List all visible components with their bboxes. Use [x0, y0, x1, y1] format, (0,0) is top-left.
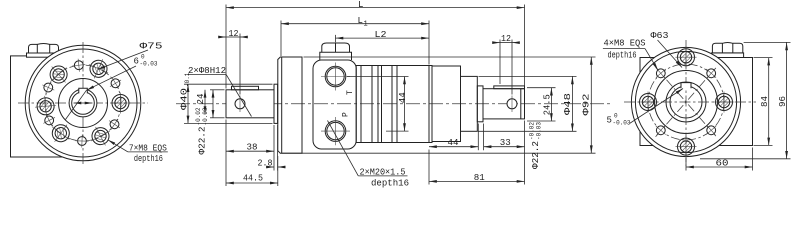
bore diameter arrows left view: [74, 102, 93, 104]
leader 4xM8 to hole NW: [645, 49, 658, 71]
port T centerlines: [321, 76, 350, 78]
bolt B4: [86, 122, 114, 150]
center bore outer circle left view: [69, 89, 97, 117]
stack plate line 1: [360, 66, 362, 143]
shaft cross hole: [235, 99, 245, 109]
svg-text:P: P: [342, 112, 351, 117]
flange chamfer line: [281, 57, 283, 153]
svg-text:depth16: depth16: [134, 154, 163, 164]
svg-text:24.5: 24.5: [543, 94, 553, 115]
ext line shaft end (L / 12 / 38 / 44.5): [225, 5, 227, 89]
right view diagonal centerline NW-SE: [656, 67, 717, 136]
end plate: [429, 66, 432, 143]
svg-text:Φ63: Φ63: [651, 31, 669, 41]
end cover: [432, 66, 461, 142]
port P outer circle: [325, 121, 346, 142]
ext lines rear 12: [499, 40, 501, 85]
dimension 24.5 vertical: [550, 88, 552, 121]
bolt B5: [46, 119, 75, 148]
svg-text:Φ48: Φ48: [563, 93, 573, 115]
center bore outer circle right view: [666, 82, 706, 122]
top plug dome: [322, 43, 350, 52]
dimension 81: [429, 180, 525, 182]
ext line flange front (44.5): [277, 156, 279, 186]
svg-text:33: 33: [500, 138, 511, 148]
M8 hole H4: [75, 134, 88, 147]
dimension L1: [281, 23, 429, 25]
svg-text:0: 0: [141, 54, 145, 61]
right view horizontal centerline: [624, 101, 756, 103]
svg-text:-0.02: -0.02: [529, 122, 536, 140]
hole RH4 SE: [702, 121, 720, 139]
housing rounded rectangle: [313, 60, 356, 149]
ext lines PHI40 (collar): [184, 83, 273, 85]
svg-text:6: 6: [134, 57, 139, 67]
underline 2xM20x1.5: [358, 175, 407, 177]
bolt B2: [85, 55, 113, 83]
keyway notch left view: [79, 88, 88, 93]
underline 4xM8: [603, 48, 645, 50]
hex nut collar (right view top): [712, 53, 744, 58]
svg-text:12: 12: [501, 34, 511, 44]
right view second circle: [635, 51, 736, 152]
M8 hole H3: [105, 115, 123, 133]
svg-text:Φ22.2: Φ22.2: [531, 141, 541, 169]
rear cross hole vertical tick: [511, 96, 513, 113]
dimension 96 vertical: [786, 42, 788, 158]
keyway notch right view: [681, 83, 691, 89]
ext line shaft step (38): [273, 125, 275, 171]
body rectangle behind right view: [640, 58, 753, 146]
hole RH2 NE: [702, 64, 720, 82]
bolt B3: [110, 93, 131, 114]
bolt B1: [44, 60, 74, 90]
rear cross hole: [507, 99, 517, 109]
dimension PHI22.2 left vertical: [212, 90, 214, 118]
dimension PHI48 vertical: [571, 76, 573, 131]
label PHI40 vertical: [180, 72, 192, 110]
main horizontal centerline: [176, 103, 612, 105]
bolt RB2 south: [676, 136, 697, 157]
port P centerlines: [321, 130, 350, 132]
svg-text:L: L: [358, 0, 363, 10]
M8 hole H1: [72, 58, 86, 72]
port T outer circle: [325, 66, 346, 87]
dimension L2: [336, 37, 430, 39]
svg-text:-0.03: -0.03: [140, 61, 158, 68]
svg-text:depth16: depth16: [371, 178, 409, 188]
svg-text:-0.03: -0.03: [202, 107, 209, 125]
ext lines 24.5 rear: [527, 87, 556, 89]
dimension 12 left (arrows outside): [219, 36, 227, 38]
dimension 24 vertical: [204, 90, 206, 114]
leader for keyway 5: [630, 89, 684, 124]
ext lines washer (44 / 33): [477, 124, 479, 151]
dimension PHI40 vertical: [187, 84, 189, 123]
bolt RB3 west: [638, 92, 659, 113]
dimension 44.5: [226, 182, 278, 184]
svg-text:-0.03: -0.03: [613, 120, 631, 127]
leader for PHI75: [98, 50, 149, 70]
shaft cross hole vertical tick: [239, 96, 241, 113]
right view vertical centerline: [685, 40, 687, 166]
svg-text:0: 0: [614, 113, 618, 120]
output shaft: [226, 90, 274, 118]
svg-text:4×M8 EQS: 4×M8 EQS: [604, 39, 646, 49]
dimension PHI92 vertical: [590, 57, 592, 153]
dimension 84 vertical: [768, 58, 770, 146]
stack plate line 5: [391, 66, 393, 143]
stack plate line 4: [381, 66, 383, 143]
svg-text:44: 44: [398, 92, 408, 103]
svg-text:96: 96: [778, 96, 788, 107]
svg-text:60: 60: [716, 159, 729, 169]
underline 2xPHI8H12: [188, 74, 227, 76]
ext lines PHI92 (flange): [304, 56, 596, 58]
flange second circle: [29, 49, 137, 157]
stack plate line 3: [377, 66, 379, 143]
dimension 12 right (arrows outside): [493, 42, 501, 44]
ext line cross hole center (12 left): [239, 34, 241, 95]
rear hub: [461, 76, 478, 131]
label PHI22.2 right vertical: [529, 122, 543, 169]
bolt RB4 east: [714, 92, 735, 113]
bolt RB1 north: [676, 47, 697, 68]
M8 hole H6: [40, 79, 57, 96]
top plug boss base: [320, 52, 352, 60]
bolt circle right view: [648, 64, 724, 140]
svg-text:Φ22.2: Φ22.2: [198, 127, 208, 155]
center bore inner circle right view: [670, 86, 702, 118]
pilot circle PHI63: [655, 71, 718, 134]
ext lines PHI22.2 left: [210, 89, 225, 91]
svg-text:1: 1: [364, 21, 368, 29]
svg-text:Φ40: Φ40: [180, 88, 190, 110]
rear stub shaft: [483, 89, 525, 119]
svg-text:24: 24: [196, 94, 206, 105]
port P inner circle: [327, 122, 344, 139]
svg-text:44.5: 44.5: [243, 174, 263, 184]
dimension 38: [226, 150, 274, 152]
dimension 44 bottom: [429, 146, 478, 148]
label PHI22.2 left vertical: [195, 107, 209, 154]
center bore inner circle left view: [72, 92, 95, 115]
ext lines PHI48: [479, 75, 577, 77]
svg-text:Φ92: Φ92: [582, 94, 592, 116]
left view vertical centerline: [82, 42, 84, 165]
pilot boss circle left view: [59, 79, 108, 128]
hole RH3 SW: [652, 121, 670, 139]
svg-text:2.8: 2.8: [258, 159, 273, 169]
ext lines 84: [754, 57, 773, 59]
leader 2xM20x1.5 to port P: [328, 121, 359, 176]
dimension L: [226, 7, 525, 9]
leader for keyway 6: [87, 66, 137, 90]
bolt circle (dash-dot) left view: [45, 65, 121, 141]
dimension 60: [686, 166, 753, 168]
hex nut body (right view top): [712, 42, 742, 52]
svg-text:38: 38: [247, 143, 258, 153]
dimension 44 vertical (stack): [347, 76, 409, 78]
svg-text:84: 84: [760, 96, 770, 107]
rear washer: [477, 86, 483, 122]
hex nut body (left view top): [29, 44, 59, 54]
ext line collar face (2.8): [277, 125, 279, 171]
leader PHI63: [658, 40, 683, 68]
hex nut collar (left view top): [27, 53, 61, 57]
flange outer circle: [25, 45, 141, 161]
M8 hole H2: [107, 74, 125, 92]
port T inner circle: [327, 68, 344, 85]
svg-text:-0.02: -0.02: [195, 107, 202, 125]
svg-text:L: L: [358, 16, 363, 26]
svg-text:T: T: [346, 90, 355, 95]
svg-text:81: 81: [474, 173, 485, 183]
hole RH1 NW: [652, 64, 670, 82]
hex nut facet lines: [37, 44, 49, 53]
leader 2xPHI8H12 through hole: [226, 75, 251, 117]
rear stub chamfer line: [520, 89, 522, 119]
right view diagonal centerline NE-SW: [656, 67, 717, 136]
stack plate line 6: [396, 66, 398, 143]
shaft key: [232, 86, 259, 90]
svg-text:depth16: depth16: [608, 51, 637, 61]
svg-text:-0.1: -0.1: [184, 72, 191, 87]
hex nut facet lines right: [722, 43, 732, 53]
stack plate line 2: [371, 66, 373, 143]
svg-text:L2: L2: [375, 30, 387, 40]
ext lines 60: [685, 158, 687, 171]
shaft collar (2.8): [274, 84, 278, 123]
rear stub key: [494, 86, 525, 89]
front flange plate: [278, 57, 302, 153]
gerotor stack outline: [356, 66, 429, 143]
svg-text:5: 5: [607, 116, 612, 126]
bolt B6: [34, 95, 57, 118]
svg-text:Φ75: Φ75: [140, 42, 163, 52]
leader continuation through bore: [66, 90, 87, 119]
svg-text:-0.03: -0.03: [536, 122, 543, 140]
ext line plug center (L2): [335, 35, 337, 42]
underline 7xM8: [128, 151, 168, 153]
ext lines 96: [744, 41, 791, 43]
top plug dome middle facet: [335, 43, 337, 52]
M8 hole H5: [40, 112, 57, 129]
ext line rear stub end (L / 33 / 81): [524, 5, 526, 88]
dimension 2.8 (arrows outside): [266, 166, 274, 168]
leader 7xM8 to hole H4: [108, 140, 128, 152]
ext line stack joint (L1 L2 44): [428, 21, 430, 65]
left view horizontal centerline: [18, 102, 148, 104]
right view outer circle: [631, 47, 740, 156]
motor body rectangle behind flange: [11, 56, 84, 157]
dimension 33 bottom: [484, 146, 525, 148]
svg-text:44: 44: [448, 138, 459, 148]
ext line flange face (L1): [280, 21, 282, 57]
svg-text:12: 12: [229, 29, 239, 39]
